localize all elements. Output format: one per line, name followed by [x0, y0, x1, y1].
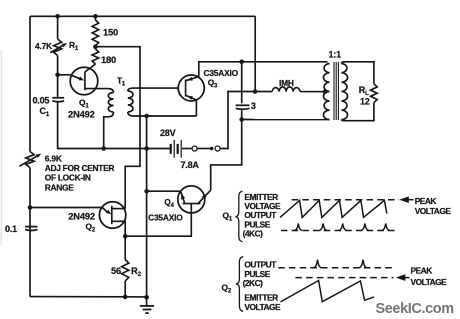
- svg-text:(4KC): (4KC): [243, 229, 264, 239]
- svg-text:RANGE: RANGE: [45, 183, 74, 193]
- node T1 bottom to 28V rail junction: [101, 146, 106, 151]
- wire junction down to R2: [124, 236, 126, 259]
- node plug pin dot: [210, 147, 214, 151]
- wire Q2 base-one lead: [112, 221, 125, 236]
- svg-text:6.9K: 6.9K: [45, 153, 62, 163]
- wire Q4 left lead: [147, 190, 181, 192]
- wire cap3 node down to Q4 collector: [211, 120, 242, 191]
- resistor R2 56: [122, 260, 129, 282]
- brace for Q2 waveforms: [236, 257, 243, 312]
- node cap3 bottom junction: [239, 117, 244, 122]
- node top rail to R1 junction: [55, 14, 60, 19]
- transformer T1 primary winding: [108, 93, 113, 113]
- wire left rail lower segment: [29, 168, 31, 297]
- node cap3 top junction: [239, 60, 244, 65]
- transformer T1 secondary winding: [128, 91, 133, 112]
- decorative scan edge: [0, 50, 2, 245]
- svg-text:180: 180: [101, 54, 116, 65]
- node primary center tap: [323, 89, 328, 94]
- wire R2 to ground rail: [124, 281, 126, 297]
- wire choke to center tap: [300, 91, 325, 93]
- resistor R1 4.7K variable: [50, 39, 67, 56]
- wire top rail to R1: [57, 16, 59, 39]
- svg-text:ADJ FOR CENTER: ADJ FOR CENTER: [45, 163, 115, 173]
- battery 28V: [171, 140, 182, 158]
- dashed peak voltage line Q2: [295, 277, 393, 279]
- dashed peak voltage line Q1: [292, 199, 399, 201]
- svg-text:56: 56: [111, 265, 121, 276]
- node 6.9K wiper to Q2 emitter junction: [28, 205, 33, 210]
- dashed output pulse baseline Q1: [281, 230, 395, 232]
- arrow peak voltage Q1: [399, 196, 413, 203]
- wire Q1 base-one lead to T1: [85, 89, 114, 93]
- capacitor 0.1: [25, 227, 37, 231]
- wire bottom ground rail: [30, 296, 147, 298]
- wire stub rail to 150: [94, 16, 96, 20]
- svg-text:0.05: 0.05: [33, 96, 50, 106]
- svg-text:IMH: IMH: [279, 78, 294, 88]
- svg-text:28V: 28V: [160, 128, 176, 138]
- svg-text:PEAK: PEAK: [411, 265, 433, 275]
- svg-text:4.7K: 4.7K: [35, 41, 52, 51]
- output transformer secondary winding: [342, 64, 348, 120]
- node top rail to 150 junction: [93, 14, 98, 19]
- wire cap3 top lead: [241, 62, 243, 104]
- wire Q2 emitter lead: [30, 207, 102, 209]
- waveform Q1 emitter sawtooth: [280, 200, 387, 217]
- wire Q3 collector to primary top: [199, 62, 328, 77]
- svg-text:2N492: 2N492: [68, 109, 95, 120]
- transistor Q3 C35AXIO: [178, 75, 204, 101]
- wire cap3 bottom lead: [241, 110, 243, 119]
- waveform Q2 emitter sawtooth: [281, 281, 375, 302]
- capacitor 3 commutating: [236, 105, 250, 109]
- wire Q3 emitter lead down: [195, 100, 197, 116]
- node ground rail junction: [144, 295, 149, 300]
- node Q1 emitter junction: [55, 73, 60, 78]
- wire C1 to 28V rail corner: [58, 101, 104, 148]
- svg-text:(2KC): (2KC): [243, 278, 264, 288]
- wire primary bottom: [242, 119, 330, 121]
- transistor Q2 2N492 unijunction: [99, 202, 125, 228]
- svg-text:3: 3: [251, 101, 256, 111]
- connector plug open circle right: [215, 146, 220, 151]
- output transformer core: [334, 62, 338, 120]
- wire Q2 base-two lead: [112, 208, 125, 210]
- wire battery to plug: [182, 148, 192, 150]
- resistor 150: [92, 20, 98, 46]
- wire 180 to Q1 base-two: [85, 64, 96, 72]
- rheostat 6.9K adjustable resistor: [20, 152, 42, 168]
- waveform Q1 output pulses: [295, 224, 390, 231]
- wire T1 primary bottom to 28V rail: [104, 112, 114, 149]
- node Q4 left lead junction: [144, 189, 149, 194]
- svg-text:OF LOCK-IN: OF LOCK-IN: [45, 172, 91, 182]
- wire battery minus ground vertical: [146, 116, 148, 297]
- svg-text:1:1: 1:1: [329, 50, 342, 60]
- svg-text:PEAK: PEAK: [415, 196, 437, 206]
- svg-text:VOLTAGE: VOLTAGE: [244, 302, 281, 312]
- svg-text:7.8A: 7.8A: [181, 160, 200, 170]
- wire secondary bottom from RL: [342, 103, 374, 121]
- wire left rail upper segment: [29, 16, 31, 151]
- wire T1 secondary bottom to Q3 emitter wire: [128, 112, 197, 116]
- node battery to ground-vertical junction: [144, 146, 149, 151]
- node choke junction: [253, 89, 258, 94]
- wire secondary top to RL: [342, 62, 374, 84]
- svg-text:VOLTAGE: VOLTAGE: [415, 206, 452, 216]
- wire T1 secondary top to Q3 base: [128, 88, 179, 91]
- wire Q4 base stem: [125, 204, 191, 237]
- capacitor C1 0.05: [52, 98, 64, 102]
- svg-text:OUTPUT: OUTPUT: [244, 260, 277, 270]
- inductor IMH choke: [272, 87, 300, 92]
- svg-text:2N492: 2N492: [68, 211, 95, 222]
- svg-text:150: 150: [103, 27, 118, 38]
- wire between plug contacts: [197, 148, 210, 150]
- node Q2 base-one R2 Q4-base junction: [123, 234, 128, 239]
- node emitter wire to ground vertical junction: [144, 114, 149, 119]
- wire top rail down to choke node: [254, 16, 256, 91]
- svg-text:SeekIC.com: SeekIC.com: [376, 301, 454, 317]
- wire 28V rail left section: [104, 148, 170, 150]
- arrow peak voltage Q2: [396, 274, 410, 281]
- resistor 180: [92, 49, 99, 64]
- node 150-180 junction: [93, 44, 98, 49]
- node R2 bottom on ground rail: [123, 295, 128, 300]
- dashed output pulse baseline Q2: [278, 267, 392, 269]
- wire 150/180 junction to long vertical: [95, 47, 140, 209]
- wire R1 to emitter node: [57, 56, 59, 98]
- svg-text:C35AXIO: C35AXIO: [148, 213, 183, 223]
- wire choke node to coil: [255, 91, 272, 93]
- brace for Q1 waveforms: [235, 191, 242, 241]
- ground symbol: [140, 297, 154, 313]
- output transformer primary winding: [323, 64, 329, 120]
- svg-text:0.1: 0.1: [5, 224, 17, 234]
- svg-text:VOLTAGE: VOLTAGE: [411, 277, 448, 287]
- waveform Q2 output pulses: [314, 260, 367, 268]
- wire plug up to choke node: [220, 92, 255, 149]
- transistor Q4 C35AXIO: [178, 186, 211, 213]
- svg-text:12: 12: [360, 97, 370, 107]
- wire top supply rail: [30, 15, 255, 17]
- transistor Q1 2N492 unijunction: [70, 67, 98, 95]
- wire Q1 emitter lead: [58, 74, 71, 76]
- resistor RL load: [371, 84, 378, 103]
- wire stub junction to 180: [94, 47, 96, 49]
- connector plug open circle left: [192, 146, 197, 151]
